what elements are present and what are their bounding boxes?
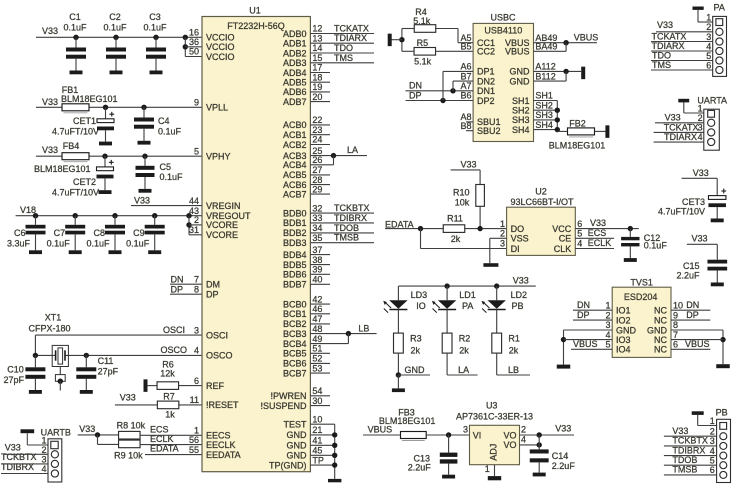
svg-text:2: 2 <box>605 310 610 320</box>
svg-text:10k: 10k <box>455 198 470 208</box>
svg-text:BDB4: BDB4 <box>283 250 307 260</box>
svg-text:VCCIO: VCCIO <box>206 42 235 52</box>
svg-text:4: 4 <box>194 346 199 356</box>
svg-text:V33: V33 <box>692 234 708 244</box>
svg-text:0.1uF: 0.1uF <box>158 127 182 137</box>
svg-text:BCB0: BCB0 <box>283 299 307 309</box>
svg-text:!PWREN: !PWREN <box>271 391 307 401</box>
svg-text:R3: R3 <box>410 334 422 344</box>
svg-text:DN: DN <box>171 274 184 284</box>
svg-text:12: 12 <box>312 24 322 34</box>
svg-text:2k: 2k <box>509 346 519 356</box>
svg-text:9: 9 <box>194 98 199 108</box>
svg-text:A7: A7 <box>460 81 471 91</box>
svg-text:0.1uF: 0.1uF <box>63 23 87 33</box>
svg-text:TDIARX: TDIARX <box>664 132 697 142</box>
svg-text:ADB7: ADB7 <box>283 97 307 107</box>
svg-text:BCB6: BCB6 <box>283 359 307 369</box>
svg-text:CET2: CET2 <box>73 177 96 187</box>
junction at C13 <box>446 432 451 437</box>
svg-text:!RESET: !RESET <box>206 400 239 410</box>
U3 VO output to V33 <box>520 434 575 436</box>
svg-text:37: 37 <box>312 245 322 255</box>
svg-text:TMSB: TMSB <box>672 465 697 475</box>
svg-text:TDIBRX: TDIBRX <box>334 213 367 223</box>
svg-text:45: 45 <box>312 446 322 456</box>
svg-text:LA: LA <box>347 145 358 155</box>
ferrite bead FB2 BLM18EG101 <box>557 130 567 132</box>
svg-text:VCCIO: VCCIO <box>206 33 235 43</box>
svg-text:TP: TP <box>312 455 324 465</box>
svg-text:TDO: TDO <box>652 50 671 60</box>
svg-text:4: 4 <box>710 446 715 456</box>
resistor R2 2k <box>442 333 452 353</box>
svg-text:SH1: SH1 <box>512 96 530 106</box>
LED LD3 <box>397 286 399 300</box>
svg-text:24: 24 <box>312 135 322 145</box>
svg-text:18: 18 <box>312 72 322 82</box>
ground bar at R6 <box>144 379 148 392</box>
svg-text:0.1uF: 0.1uF <box>160 172 184 182</box>
svg-text:R7: R7 <box>163 392 175 402</box>
crystal case ground stub <box>59 367 61 375</box>
svg-text:U2: U2 <box>535 186 547 196</box>
svg-text:IO3: IO3 <box>616 335 631 345</box>
junction at CET2 <box>102 154 107 159</box>
svg-text:TDOB: TDOB <box>334 223 359 233</box>
svg-text:2: 2 <box>41 445 46 455</box>
svg-text:R2: R2 <box>459 334 471 344</box>
svg-text:27: 27 <box>312 165 322 175</box>
LED LD1 <box>446 286 448 300</box>
svg-text:V33: V33 <box>555 423 571 433</box>
svg-text:19: 19 <box>312 82 322 92</box>
net VBUS at TVS1 pin 6 <box>671 348 710 350</box>
svg-text:OSCI: OSCI <box>206 330 228 340</box>
svg-text:C2: C2 <box>109 12 121 22</box>
svg-text:0.1uF: 0.1uF <box>47 239 71 249</box>
op IC U1 FT2232H-56Q body <box>202 17 310 472</box>
svg-text:REF: REF <box>206 381 225 391</box>
svg-text:4.7uFT/10V: 4.7uFT/10V <box>658 207 705 217</box>
svg-text:EDATA: EDATA <box>385 219 414 229</box>
svg-text:VCORE: VCORE <box>206 230 238 240</box>
svg-text:3: 3 <box>710 436 715 446</box>
svg-text:52: 52 <box>312 354 322 364</box>
svg-text:PA: PA <box>714 3 725 13</box>
svg-text:V33: V33 <box>42 97 58 107</box>
svg-text:SH3: SH3 <box>512 115 530 125</box>
svg-text:ESD204: ESD204 <box>624 292 658 302</box>
svg-text:VBUS: VBUS <box>685 339 710 349</box>
svg-text:ECLK: ECLK <box>588 238 612 248</box>
svg-text:4: 4 <box>577 239 582 249</box>
svg-text:33: 33 <box>312 213 322 223</box>
svg-text:ACB1: ACB1 <box>283 130 307 140</box>
svg-text:VSS: VSS <box>511 234 529 244</box>
svg-text:ADB6: ADB6 <box>283 87 307 97</box>
svg-text:TVS1: TVS1 <box>630 278 653 288</box>
svg-text:LD3: LD3 <box>411 290 428 300</box>
svg-text:IO2: IO2 <box>616 315 631 325</box>
net DN to USBC DN1/DN2 <box>443 70 473 72</box>
svg-text:R11: R11 <box>447 213 463 223</box>
svg-text:C1: C1 <box>69 12 81 22</box>
svg-text:B112: B112 <box>535 71 555 81</box>
svg-text:DO: DO <box>511 224 524 234</box>
svg-text:IO: IO <box>416 301 426 311</box>
svg-text:ACB5: ACB5 <box>283 170 307 180</box>
svg-text:ACB0: ACB0 <box>283 120 307 130</box>
junction at C5 <box>142 154 147 159</box>
svg-text:39: 39 <box>312 265 322 275</box>
svg-text:BLM18EG101: BLM18EG101 <box>61 94 118 104</box>
net DN at TVS1 pin 10 <box>671 309 710 311</box>
svg-text:EECLK: EECLK <box>206 440 236 450</box>
svg-text:ECS: ECS <box>150 425 169 435</box>
svg-text:26: 26 <box>312 155 322 165</box>
svg-text:56: 56 <box>189 435 199 445</box>
svg-text:8: 8 <box>673 320 678 330</box>
LD3 resistor to GND <box>396 372 401 377</box>
svg-text:5.1k: 5.1k <box>414 57 432 67</box>
svg-text:R10: R10 <box>453 188 470 198</box>
svg-text:BDB7: BDB7 <box>283 280 307 290</box>
svg-text:TDIBRX: TDIBRX <box>1 462 34 472</box>
U2 VSS to ground <box>490 237 507 239</box>
svg-text:C14: C14 <box>552 451 569 461</box>
svg-text:EEDATA: EEDATA <box>206 450 241 460</box>
svg-text:TCKATX: TCKATX <box>334 24 369 34</box>
svg-text:NC: NC <box>654 315 667 325</box>
svg-text:ADB3: ADB3 <box>283 58 307 68</box>
svg-text:V33: V33 <box>693 168 709 178</box>
net ECLK at U2 CLK <box>575 248 614 250</box>
svg-text:2: 2 <box>521 425 526 435</box>
svg-text:VCORE: VCORE <box>206 220 238 230</box>
svg-text:FB4: FB4 <box>63 141 80 151</box>
svg-text:OSCO: OSCO <box>160 345 187 355</box>
svg-text:VO: VO <box>503 430 516 440</box>
svg-text:U1: U1 <box>249 6 261 16</box>
svg-text:2: 2 <box>194 215 199 225</box>
svg-text:1: 1 <box>698 103 703 113</box>
connector UARTB power bar <box>21 429 35 433</box>
svg-text:2k: 2k <box>451 234 461 244</box>
svg-text:LA: LA <box>458 365 469 375</box>
svg-text:2: 2 <box>710 426 715 436</box>
svg-text:ADB5: ADB5 <box>283 78 307 88</box>
svg-text:1: 1 <box>485 464 490 474</box>
U3 ADJ to ground <box>494 465 496 476</box>
junction on V33 rail at C2 <box>113 35 118 40</box>
svg-text:VO: VO <box>503 440 516 450</box>
net VBUS at USBC <box>534 42 598 44</box>
svg-text:LB: LB <box>358 323 369 333</box>
svg-text:V18: V18 <box>20 205 36 215</box>
svg-text:21: 21 <box>312 425 322 435</box>
svg-text:36: 36 <box>189 37 199 47</box>
svg-text:1k: 1k <box>165 410 175 420</box>
svg-text:0.1uF: 0.1uF <box>644 241 668 251</box>
svg-text:V33: V33 <box>672 426 688 436</box>
svg-text:11: 11 <box>190 395 199 405</box>
svg-text:VBUS: VBUS <box>573 339 598 349</box>
svg-text:0.1uF: 0.1uF <box>126 239 150 249</box>
connector USBC USB4110 body <box>473 23 533 141</box>
svg-text:49: 49 <box>312 334 322 344</box>
svg-text:TDIARX: TDIARX <box>334 33 367 43</box>
svg-text:PB: PB <box>716 408 728 418</box>
svg-text:4: 4 <box>521 435 526 445</box>
svg-text:15: 15 <box>312 53 322 63</box>
USBC GND pins to ground <box>534 70 582 72</box>
svg-text:DP: DP <box>409 90 422 100</box>
svg-text:35: 35 <box>312 233 322 243</box>
svg-text:C11: C11 <box>98 356 114 366</box>
junction at CET1 <box>103 105 108 110</box>
connector PA power bar <box>693 7 704 10</box>
svg-text:USBC: USBC <box>490 12 516 22</box>
svg-text:TCKATX: TCKATX <box>652 31 687 41</box>
svg-text:BCB1: BCB1 <box>283 309 307 319</box>
svg-text:TCKBTX: TCKBTX <box>334 203 370 213</box>
svg-text:VI: VI <box>473 430 482 440</box>
svg-text:SH2: SH2 <box>535 100 553 110</box>
USBC shield pins tie <box>534 100 558 102</box>
svg-text:32: 32 <box>312 203 322 213</box>
svg-text:9: 9 <box>673 310 678 320</box>
svg-text:B5: B5 <box>460 42 471 52</box>
svg-text:CET1: CET1 <box>73 116 96 126</box>
svg-text:BLM18EG101: BLM18EG101 <box>34 164 91 174</box>
svg-text:V33: V33 <box>120 393 136 403</box>
TVS1 IO3 wire <box>564 339 613 341</box>
U1 ADB JTAG-A signal lines <box>310 33 374 35</box>
svg-text:IO4: IO4 <box>616 345 631 355</box>
svg-text:3: 3 <box>194 325 199 335</box>
svg-text:VPLL: VPLL <box>206 103 228 113</box>
wire V18 to VCORE pins 2/31 <box>188 216 190 235</box>
svg-text:DN2: DN2 <box>477 76 495 86</box>
svg-text:1: 1 <box>500 219 505 229</box>
svg-text:SH4: SH4 <box>535 120 553 130</box>
svg-text:5: 5 <box>710 455 715 465</box>
net LB at BCB3/BCB4 <box>310 333 376 335</box>
svg-text:4: 4 <box>605 330 610 340</box>
svg-text:6: 6 <box>194 376 199 386</box>
svg-text:DN1: DN1 <box>477 86 495 96</box>
svg-text:4.7uFT/10V: 4.7uFT/10V <box>52 188 99 198</box>
svg-text:47: 47 <box>312 314 322 324</box>
svg-text:29: 29 <box>312 184 322 194</box>
U1 BDB JTAG-B signal lines <box>310 212 374 214</box>
svg-text:V33: V33 <box>42 26 58 36</box>
svg-text:5: 5 <box>706 51 711 61</box>
svg-text:0.1uF: 0.1uF <box>143 23 167 33</box>
svg-text:TEST: TEST <box>283 420 307 430</box>
svg-text:ADJ: ADJ <box>489 444 499 461</box>
svg-text:4: 4 <box>41 464 46 474</box>
wire OSCI <box>35 334 202 336</box>
svg-text:BCB3: BCB3 <box>283 329 307 339</box>
resistor R1 2k <box>492 333 502 353</box>
svg-text:22: 22 <box>312 115 322 125</box>
svg-text:28: 28 <box>312 175 322 185</box>
svg-text:VBUS: VBUS <box>574 32 599 42</box>
svg-text:6: 6 <box>706 60 711 70</box>
svg-text:4: 4 <box>706 41 711 51</box>
svg-text:2.2uF: 2.2uF <box>552 461 576 471</box>
svg-text:7: 7 <box>673 330 678 340</box>
svg-text:R5: R5 <box>417 38 429 48</box>
svg-text:2.2uF: 2.2uF <box>676 270 700 280</box>
svg-text:31: 31 <box>189 225 199 235</box>
net LA at R2 <box>447 374 478 376</box>
svg-text:20: 20 <box>312 92 322 102</box>
svg-text:FT2232H-56Q: FT2232H-56Q <box>227 21 285 31</box>
svg-text:DP1: DP1 <box>477 67 495 77</box>
svg-text:V33: V33 <box>5 442 21 452</box>
wire to VCCIO pins 36/50 <box>184 37 186 56</box>
svg-text:USB4110: USB4110 <box>484 26 522 36</box>
connector UARTA power bar <box>678 99 689 103</box>
svg-text:BCB4: BCB4 <box>283 339 307 349</box>
svg-text:3: 3 <box>706 32 711 42</box>
svg-text:CC2: CC2 <box>477 47 495 57</box>
junction at R8/R9 <box>95 432 100 437</box>
svg-text:AP7361C-33ER-13: AP7361C-33ER-13 <box>456 411 533 421</box>
svg-text:VREGIN: VREGIN <box>206 201 241 211</box>
svg-text:FB2: FB2 <box>569 118 586 128</box>
svg-text:CFPX-180: CFPX-180 <box>28 324 70 334</box>
svg-text:C6: C6 <box>14 228 26 238</box>
svg-text:6: 6 <box>710 465 715 475</box>
svg-text:ADB4: ADB4 <box>283 68 307 78</box>
svg-text:R1: R1 <box>508 334 520 344</box>
svg-text:V33: V33 <box>590 218 606 228</box>
svg-text:GND: GND <box>647 325 668 335</box>
svg-text:BLM18EG101: BLM18EG101 <box>549 140 606 150</box>
svg-text:ACB2: ACB2 <box>283 140 307 150</box>
svg-text:C7: C7 <box>54 228 66 238</box>
svg-text:TCKBTX: TCKBTX <box>672 436 708 446</box>
svg-text:SH1: SH1 <box>535 91 553 101</box>
svg-text:!SUSPEND: !SUSPEND <box>260 401 307 411</box>
svg-text:SH2: SH2 <box>512 106 530 116</box>
svg-text:BDB2: BDB2 <box>283 228 307 238</box>
net LA at ACB3/ACB4 <box>310 155 367 157</box>
svg-text:DP: DP <box>206 290 219 300</box>
svg-text:ACB6: ACB6 <box>283 180 307 190</box>
svg-text:GND: GND <box>510 76 531 86</box>
svg-text:14: 14 <box>312 43 322 53</box>
svg-text:XT1: XT1 <box>45 313 62 323</box>
svg-text:TCKBTX: TCKBTX <box>1 452 37 462</box>
svg-text:VCC: VCC <box>552 224 572 234</box>
svg-text:EDATA: EDATA <box>150 444 179 454</box>
svg-text:SH3: SH3 <box>535 110 553 120</box>
junction dots on V18 rail <box>33 213 38 218</box>
svg-text:VPHY: VPHY <box>206 152 231 162</box>
svg-text:TDIBRX: TDIBRX <box>672 445 705 455</box>
svg-text:GND: GND <box>287 451 308 461</box>
svg-text:DM: DM <box>206 280 220 290</box>
TVS1 pin 7 wire <box>671 339 723 341</box>
LED LD2 <box>496 286 498 300</box>
net ECS at U2 CE <box>575 237 614 239</box>
svg-text:53: 53 <box>312 363 322 373</box>
svg-text:NC: NC <box>654 335 667 345</box>
svg-text:CET3: CET3 <box>682 197 705 207</box>
svg-text:5: 5 <box>577 229 582 239</box>
svg-text:DI: DI <box>511 244 520 254</box>
svg-text:2k: 2k <box>411 346 421 356</box>
svg-text:LD2: LD2 <box>511 290 528 300</box>
svg-text:TDO: TDO <box>334 43 353 53</box>
net EDATA to EEDATA pin 55 <box>145 454 202 456</box>
svg-text:1: 1 <box>706 13 711 23</box>
net ECLK to EECLK pin 56 <box>140 444 202 446</box>
svg-text:55: 55 <box>189 445 199 455</box>
svg-text:V33: V33 <box>461 159 477 169</box>
svg-text:2k: 2k <box>459 346 469 356</box>
svg-text:13: 13 <box>312 33 322 43</box>
TVS1 GND pin 8 to ground <box>671 329 723 331</box>
svg-text:3: 3 <box>41 455 46 465</box>
junction on V33 rail at C1 <box>73 35 78 40</box>
svg-text:ECS: ECS <box>588 228 607 238</box>
svg-text:GND: GND <box>405 365 426 375</box>
svg-text:8: 8 <box>194 284 199 294</box>
svg-text:0.1uF: 0.1uF <box>86 239 110 249</box>
svg-text:IO1: IO1 <box>616 306 631 316</box>
svg-text:6: 6 <box>577 219 582 229</box>
net V33 LED rail <box>398 285 535 287</box>
svg-text:DP: DP <box>171 284 184 294</box>
svg-text:R8 10k: R8 10k <box>117 421 146 431</box>
svg-text:51: 51 <box>312 344 322 354</box>
junction on V33 rail at C3 <box>153 35 158 40</box>
svg-text:4: 4 <box>698 132 703 142</box>
svg-text:TMS: TMS <box>652 60 671 70</box>
svg-text:5: 5 <box>194 146 199 156</box>
connector PB power bar <box>692 411 704 415</box>
svg-text:GND: GND <box>287 430 308 440</box>
net LB at R1 <box>497 374 530 376</box>
svg-text:42: 42 <box>312 294 322 304</box>
svg-text:PB: PB <box>512 301 524 311</box>
svg-text:BDB5: BDB5 <box>283 260 307 270</box>
node at C10 <box>33 353 38 358</box>
svg-text:2: 2 <box>706 22 711 32</box>
USBC SBU stubs <box>466 121 473 123</box>
svg-text:U3: U3 <box>486 401 498 411</box>
svg-text:NC: NC <box>654 345 667 355</box>
svg-text:DP: DP <box>686 310 699 320</box>
svg-text:C8: C8 <box>93 228 105 238</box>
svg-text:40: 40 <box>312 275 322 285</box>
svg-text:16: 16 <box>189 28 199 38</box>
svg-text:BDB6: BDB6 <box>283 270 307 280</box>
svg-text:7: 7 <box>194 274 199 284</box>
svg-text:6: 6 <box>673 340 678 350</box>
svg-text:34: 34 <box>312 223 322 233</box>
svg-text:C4: C4 <box>158 116 170 126</box>
svg-text:ADB2: ADB2 <box>283 48 307 58</box>
svg-text:27pF: 27pF <box>98 367 119 377</box>
svg-text:23: 23 <box>312 125 322 135</box>
